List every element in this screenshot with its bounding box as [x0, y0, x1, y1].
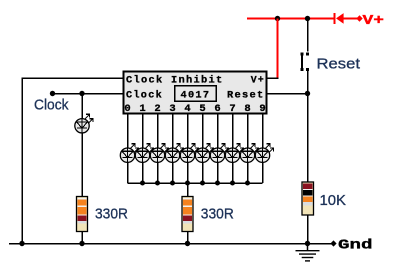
- wire: IC pin 1: [142, 114, 144, 149]
- svg-text:6: 6: [214, 103, 222, 115]
- terminal: Clock input dot: [50, 91, 55, 96]
- wire: LED 2 cathode drop: [157, 162, 159, 183]
- wire: IC pin 5: [202, 114, 204, 149]
- wire: IC pin 9: [262, 114, 264, 149]
- LED D7 (output 6): [210, 144, 228, 163]
- resistor R2 330R (orange-orange-brown): [182, 197, 193, 232]
- wire: red drop from rail to IC V+ pin: [277, 19, 279, 79]
- wire: ground bus: [9, 243, 334, 245]
- LED D10 (output 9): [255, 144, 273, 163]
- wire: IC pin 3: [172, 114, 174, 149]
- pin labels 0-9: [124, 103, 267, 115]
- push button SW1 (Reset, normally open): [300, 52, 309, 71]
- node: R2/ground junction: [185, 241, 190, 246]
- wire: IC pin 4: [187, 114, 189, 149]
- wire: LED 8 cathode drop: [247, 162, 249, 183]
- svg-text:330R: 330R: [201, 205, 234, 222]
- wire: left frame vertical to ground: [21, 77, 23, 243]
- svg-text:Reset: Reset: [317, 56, 361, 73]
- svg-text:1: 1: [139, 103, 147, 115]
- wire: LED 7 cathode drop: [232, 162, 234, 183]
- wire: rail down to reset button: [307, 19, 309, 52]
- wire: LED 0 cathode drop: [127, 162, 129, 183]
- wire: clock LED to R1: [81, 133, 83, 197]
- wire: IC pin 6: [217, 114, 219, 149]
- node: V+ rail / reset button junction: [305, 16, 310, 21]
- LED D2 (output 1): [135, 144, 153, 163]
- node: clock LED branch junction: [79, 91, 84, 96]
- svg-text:4: 4: [184, 103, 192, 115]
- wire: R2 to ground bus: [187, 232, 189, 244]
- svg-text:Reset: Reset: [227, 90, 265, 102]
- LED D6 (output 5): [195, 144, 213, 163]
- wire: LED 4 cathode drop: [187, 162, 189, 183]
- wire: IC pin 8: [247, 114, 249, 149]
- LED D4 (output 3): [165, 144, 183, 163]
- wire: IC pin 7: [232, 114, 234, 149]
- svg-text:V+: V+: [251, 74, 265, 86]
- wire: button to reset node: [307, 71, 309, 94]
- wire: LED 1 cathode drop: [142, 162, 144, 183]
- node: reset net junction: [305, 91, 310, 96]
- op IC U1 4017 decade counter: [124, 72, 267, 114]
- wire: IC pin 0: [127, 114, 129, 149]
- svg-text:4017: 4017: [181, 90, 211, 102]
- node: 10K/ground junction: [305, 241, 310, 246]
- resistor R1 330R (orange-orange-brown): [77, 197, 88, 232]
- node: V+ rail / IC V+ drop junction: [275, 16, 280, 21]
- LED D5 (output 4): [180, 144, 198, 163]
- svg-text:0: 0: [124, 103, 132, 115]
- svg-text:2: 2: [154, 103, 162, 115]
- terminal V+ (red diamond): [356, 15, 362, 21]
- svg-text:8: 8: [244, 103, 252, 115]
- wire: V+ rail (red, top): [247, 18, 334, 20]
- wire: 10K to ground bus: [307, 215, 309, 244]
- wire: IC Reset pin to reset node: [267, 93, 308, 95]
- wire: IC V+ pin stub: [267, 77, 279, 79]
- terminal Gnd (diamond): [330, 240, 336, 246]
- svg-text:10K: 10K: [320, 192, 347, 209]
- svg-text:7: 7: [229, 103, 237, 115]
- svg-text:Clock: Clock: [126, 90, 163, 102]
- wire: LED 5 cathode drop: [202, 162, 204, 183]
- diode D1 (red, cathode bar left, pointing left): [333, 13, 357, 24]
- node: bus junctions: [140, 181, 250, 186]
- LED D3 (output 2): [150, 144, 168, 163]
- wire: LED 9 cathode drop: [262, 162, 264, 183]
- ground symbol: [296, 244, 320, 261]
- wire: reset node down to 10K: [307, 94, 309, 183]
- LED D8 (output 7): [225, 144, 243, 163]
- svg-text:Clock Inhibit: Clock Inhibit: [126, 74, 224, 86]
- wire: top-left frame to Clock Inhibit pin: [22, 77, 124, 79]
- LED D1 (output 0): [120, 144, 138, 163]
- LED D11 (clock indicator): [75, 114, 93, 133]
- wire: clock junction down to LED: [81, 94, 83, 120]
- wire: Clock input to IC Clock pin: [53, 93, 124, 95]
- wire: LED 3 cathode drop: [172, 162, 174, 183]
- svg-text:330R: 330R: [95, 205, 128, 222]
- LED D9 (output 8): [240, 144, 258, 163]
- wire: bus down to R2: [187, 183, 189, 197]
- wire: LED 6 cathode drop: [217, 162, 219, 183]
- wire: R1 to ground bus: [81, 232, 83, 244]
- node: frame/ground junction: [19, 241, 24, 246]
- svg-text:3: 3: [169, 103, 177, 115]
- wire: IC pin 2: [157, 114, 159, 149]
- svg-text:Clock: Clock: [34, 96, 69, 113]
- svg-text:V+: V+: [363, 13, 385, 29]
- svg-text:5: 5: [199, 103, 207, 115]
- node: R1/ground junction: [79, 241, 84, 246]
- resistor R3 10K (brown-black-orange): [302, 182, 314, 215]
- svg-text:Gnd: Gnd: [338, 237, 373, 253]
- wire: LED cathode bus: [128, 182, 263, 184]
- svg-text:9: 9: [259, 103, 267, 115]
